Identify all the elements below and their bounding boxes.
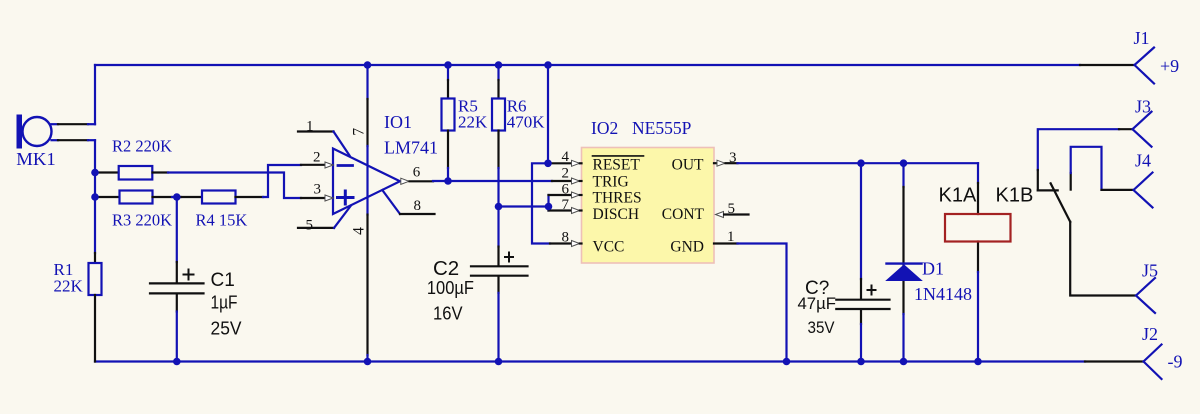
wire J3 lead: [1119, 128, 1133, 130]
svg-text:CONT: CONT: [662, 206, 705, 223]
svg-text:J4: J4: [1135, 151, 1151, 171]
connector J5: [1136, 261, 1158, 314]
wire J4 throw contact: [1071, 147, 1134, 190]
op-amp pin 1: [298, 119, 350, 156]
svg-text:1N4148: 1N4148: [914, 284, 972, 304]
svg-text:OUT: OUT: [672, 157, 704, 174]
resistor R1: [54, 253, 102, 362]
capacitor C?: [798, 163, 890, 361]
svg-text:7: 7: [350, 128, 367, 136]
node bottom C1: [173, 358, 181, 366]
svg-text:47µF: 47µF: [798, 294, 837, 313]
relay contact K1B: [996, 185, 1034, 207]
svg-text:IO1: IO1: [384, 112, 412, 132]
svg-text:R3 220K: R3 220K: [112, 211, 172, 230]
node bottom C2: [495, 358, 503, 366]
svg-text:J2: J2: [1142, 324, 1158, 344]
node THRES-DISCH tie: [545, 203, 553, 211]
wire RESET node to VCC: [532, 163, 550, 243]
wire top +9 rail: [95, 64, 1080, 66]
wire J3 to switch contact: [1038, 129, 1119, 190]
svg-text:3: 3: [729, 150, 737, 166]
svg-text:R2 220K: R2 220K: [112, 137, 172, 156]
svg-text:LM741: LM741: [384, 138, 438, 158]
wire top rail lead to J1: [1080, 64, 1135, 66]
svg-text:GND: GND: [670, 239, 704, 256]
wire R6/C2 node to THRES/DISCH tie: [499, 205, 549, 207]
node bottom D1: [900, 358, 908, 366]
svg-text:470K: 470K: [507, 113, 546, 132]
node top rail R6: [495, 61, 503, 69]
capacitor C1: [150, 197, 242, 362]
op-amp pin 6 output: [401, 165, 433, 185]
wire switch common to J5: [1070, 222, 1136, 296]
svg-text:22K: 22K: [458, 113, 488, 132]
wire bottom -9 rail: [95, 360, 1085, 362]
wire R3 to R4 node: [172, 196, 181, 198]
svg-text:8: 8: [562, 230, 570, 246]
svg-text:2: 2: [562, 166, 570, 182]
wire top rail to RESET: [547, 65, 549, 163]
node top rail R5: [444, 61, 452, 69]
op-amp IO1: [333, 112, 438, 214]
connector J1: [1134, 28, 1180, 84]
svg-text:1: 1: [306, 119, 314, 135]
svg-text:22K: 22K: [54, 277, 84, 296]
555 pin 2 TRIG lead: [552, 166, 582, 185]
op-amp pin 5: [298, 206, 351, 234]
wire R2 to op-amp pin3 (step down): [168, 173, 301, 199]
node bottom op-amp pin4: [364, 358, 372, 366]
connector J4: [1134, 151, 1153, 208]
svg-text:IO2: IO2: [591, 118, 618, 138]
wire mic bottom terminal down left column: [94, 140, 96, 253]
svg-text:+9: +9: [1160, 56, 1179, 76]
resistor R4: [181, 191, 263, 230]
wire GND to bottom rail: [738, 244, 787, 362]
capacitor C2: [427, 207, 528, 362]
svg-text:1: 1: [727, 229, 735, 245]
555 pin 6 THRES lead: [549, 182, 582, 199]
svg-text:16V: 16V: [433, 304, 463, 324]
svg-text:4: 4: [350, 227, 367, 235]
svg-text:R4 15K: R4 15K: [196, 211, 248, 230]
svg-text:6: 6: [562, 182, 570, 198]
svg-text:THRES: THRES: [593, 190, 642, 207]
svg-text:NE555P: NE555P: [632, 118, 692, 138]
svg-text:K1B: K1B: [996, 185, 1034, 207]
svg-text:TRIG: TRIG: [593, 174, 629, 191]
wire OUT to relay: [738, 162, 979, 164]
555 pin 5 CONT lead: [716, 201, 749, 218]
svg-text:2: 2: [313, 149, 321, 165]
microphone MK1: [16, 115, 95, 170]
svg-text:6: 6: [413, 165, 421, 181]
svg-text:C1: C1: [211, 270, 235, 291]
555 pin 4 RESET lead: [548, 149, 582, 166]
node top rail RESET feed: [544, 61, 552, 69]
op-amp IO1 pin7 supply vertical: [350, 65, 367, 362]
op-amp pin 2 lead: [301, 149, 333, 168]
svg-text:J3: J3: [1135, 97, 1151, 117]
svg-text:3: 3: [314, 182, 322, 198]
connector J2: [1142, 324, 1183, 379]
op-amp pin 8: [382, 190, 434, 214]
node bottom GND: [783, 358, 791, 366]
wire op-amp output to 555 TRIG: [433, 180, 552, 182]
svg-text:8: 8: [414, 198, 422, 214]
node top rail op-amp supply: [364, 61, 372, 69]
node RESET-VCC: [544, 160, 552, 168]
resistor R5: [442, 65, 489, 181]
switch blade K1B: [1051, 183, 1071, 222]
svg-text:1µF: 1µF: [211, 293, 238, 313]
svg-text:35V: 35V: [808, 318, 836, 337]
node R5-TRIG: [444, 177, 452, 185]
555 pin 1 GND lead: [714, 229, 738, 245]
wire bottom rail lead to J2: [1085, 360, 1144, 362]
connector J3: [1133, 97, 1152, 147]
relay coil K1A: [939, 163, 1011, 361]
svg-text:100µF: 100µF: [427, 278, 474, 298]
555 pin 3 OUT lead: [714, 150, 738, 166]
wire R4 to op-amp pin2 (step up): [263, 165, 301, 197]
node R6-C2: [495, 203, 503, 211]
node mic-R3: [91, 193, 99, 201]
resistor R6: [492, 65, 545, 207]
wire left vertical from top rail to mic top terminal: [94, 65, 96, 124]
svg-text:25V: 25V: [211, 319, 242, 339]
svg-text:7: 7: [562, 197, 570, 213]
svg-text:C2: C2: [433, 257, 459, 280]
555 pin 7 DISCH lead: [549, 197, 582, 214]
svg-text:RESET: RESET: [593, 157, 641, 174]
diode D1 1N4148: [887, 163, 973, 361]
svg-text:J1: J1: [1134, 28, 1150, 48]
svg-text:-9: -9: [1168, 352, 1183, 372]
node bottom C?: [857, 358, 865, 366]
svg-text:J5: J5: [1142, 261, 1158, 281]
svg-text:VCC: VCC: [593, 239, 625, 256]
svg-text:MK1: MK1: [16, 149, 56, 169]
node R3-R4-C1: [173, 193, 181, 201]
wire THRES/DISCH tie: [547, 195, 549, 211]
555 pin 8 VCC lead: [550, 230, 582, 247]
node OUT-D1: [900, 159, 908, 167]
node bottom relay: [974, 358, 982, 366]
svg-text:K1A: K1A: [939, 185, 977, 207]
svg-text:5: 5: [728, 201, 736, 217]
svg-text:5: 5: [306, 218, 314, 234]
svg-text:4: 4: [562, 149, 570, 165]
svg-text:D1: D1: [922, 259, 944, 279]
IC IO2 NE555P body: [582, 118, 715, 263]
svg-text:DISCH: DISCH: [593, 206, 640, 223]
resistor R2: [95, 137, 172, 180]
op-amp pin 3 lead: [301, 182, 333, 202]
node mic-R2: [91, 169, 99, 177]
node OUT-C?: [857, 159, 865, 167]
resistor R3: [95, 191, 172, 230]
